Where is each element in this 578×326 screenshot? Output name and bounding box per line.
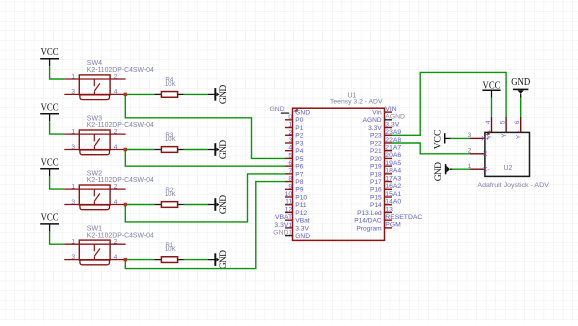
U1 left pin P2 (285, 133, 304, 140)
svg-text:RESETDAC: RESETDAC (385, 214, 422, 221)
U2 pin 1 (X-) (468, 163, 490, 173)
U2 Adafruit Joystick - ADV (477, 132, 549, 189)
svg-text:1: 1 (71, 74, 75, 81)
U1 left pin VBat (285, 218, 310, 225)
U1 right pin P13.Led (357, 210, 392, 217)
svg-text:PGM: PGM (385, 222, 401, 229)
svg-text:P18: P18 (370, 171, 382, 178)
svg-text:Y: Y (486, 134, 493, 139)
U1 right pin P14 (370, 202, 392, 209)
wire VCC to U2 pin 4 (491, 98, 493, 117)
U1 left pin P7 (285, 171, 304, 178)
U1 right pin P15 (370, 194, 392, 201)
wire SW4 pin4 to R4 (126, 93, 155, 95)
wire VCC to SW3 pin 1 (50, 121, 65, 134)
U1 right pin P21 (370, 148, 392, 155)
switch SW2 K2-1102DP-C4SW-04 (64, 170, 154, 209)
svg-text:K2-1102DP-C4SW-04: K2-1102DP-C4SW-04 (87, 177, 154, 184)
svg-text:14A0: 14A0 (385, 199, 401, 206)
svg-text:Adafruit Joystick - ADV: Adafruit Joystick - ADV (477, 182, 549, 189)
U1 left pin GND (281, 110, 310, 117)
svg-text:U2: U2 (504, 165, 513, 172)
U1 right pin P14/DAC (354, 218, 392, 225)
U2 pin 3 (X+) (468, 132, 490, 142)
U1 left pin P4 (285, 148, 304, 155)
wire SW3 pin4 to R3 (126, 149, 155, 151)
U1 right pin P22 (370, 140, 392, 147)
svg-text:P3: P3 (295, 140, 303, 147)
svg-text:1: 1 (71, 184, 75, 191)
svg-text:D: D (218, 195, 229, 202)
svg-text:P10: P10 (295, 194, 307, 201)
resistor R1 10K (154, 242, 183, 263)
svg-text:VIN: VIN (385, 106, 396, 113)
wire GND to U2 pin 1 (453, 168, 470, 170)
svg-text:P2: P2 (295, 133, 303, 140)
U1 left pin P1 (285, 125, 304, 132)
svg-text:10K: 10K (165, 81, 177, 88)
wire R4 to GND (184, 93, 208, 95)
wire GND to U2 pin 6 (520, 98, 522, 117)
svg-text:P12: P12 (295, 210, 307, 217)
svg-text:Program: Program (356, 225, 382, 232)
svg-text:P21: P21 (370, 148, 382, 155)
svg-text:3.3V: 3.3V (368, 125, 382, 132)
op-amp U1 Teensy 3.2 - ADV (293, 93, 385, 241)
wire SW1 pin4 to R1 (126, 259, 155, 261)
wire VCC to SW4 pin 1 (50, 66, 65, 79)
VCC supply for SW2 (40, 157, 59, 176)
svg-text:13: 13 (385, 206, 393, 213)
svg-text:2: 2 (114, 129, 118, 136)
VCC supply left of U2 pin 3 (433, 129, 451, 149)
svg-text:4: 4 (114, 89, 118, 96)
U1 left pin P5 (285, 156, 304, 163)
svg-text:7: 7 (288, 168, 292, 175)
svg-text:VBat: VBat (295, 218, 309, 225)
svg-text:P20: P20 (370, 156, 382, 163)
svg-text:2: 2 (114, 184, 118, 191)
svg-text:8: 8 (288, 176, 292, 183)
svg-text:Teensy 3.2 - ADV: Teensy 3.2 - ADV (330, 99, 383, 106)
U1 right pin P23 (370, 133, 392, 140)
svg-text:X: X (483, 151, 488, 158)
svg-text:Y: Y (516, 134, 523, 139)
U1 right pin P16 (370, 187, 392, 194)
svg-text:GND: GND (295, 233, 310, 240)
svg-text:17A3: 17A3 (385, 175, 401, 182)
svg-text:P17: P17 (370, 179, 382, 186)
resistor R2 10K (154, 187, 183, 208)
svg-text:C: C (433, 129, 444, 136)
switch SW4 K2-1102DP-C4SW-04 (64, 60, 154, 99)
U2 pin 4 (Y+) (485, 117, 493, 139)
junction at SW4 pin 4 (124, 93, 128, 97)
U2 pin 5 (Y) (500, 117, 508, 138)
ground symbol row SW3 (208, 140, 229, 159)
svg-text:4: 4 (485, 120, 492, 124)
wire net 23A9: U1 P23 to U2 pin 5 (392, 72, 506, 135)
wire net 22A8: U1 P22 to U2 pin 2 (392, 143, 470, 154)
svg-text:15A1: 15A1 (385, 191, 401, 198)
U2 pin 2 (X) (468, 148, 488, 158)
U1 left pin GND (285, 233, 310, 240)
svg-text:2: 2 (468, 148, 472, 155)
svg-text:P19: P19 (370, 164, 382, 171)
junction at SW1 pin 4 (124, 258, 128, 262)
U1 left pin 3.3V (285, 225, 309, 232)
U1 right pin 3.3V (368, 125, 392, 132)
svg-text:VCC: VCC (41, 47, 59, 58)
svg-text:GND: GND (511, 77, 530, 88)
svg-text:2: 2 (114, 74, 118, 81)
svg-text:3: 3 (468, 132, 472, 139)
svg-text:1: 1 (71, 239, 75, 246)
U1 right pin P20 (370, 156, 392, 163)
svg-text:P11: P11 (295, 202, 307, 209)
svg-text:10K: 10K (165, 136, 177, 143)
VCC supply for SW4 (40, 47, 59, 66)
wire VCC to U2 pin 3 (451, 137, 471, 139)
svg-text:2: 2 (114, 239, 118, 246)
svg-text:3.3V: 3.3V (385, 121, 399, 128)
svg-text:GND: GND (269, 106, 284, 113)
ground symbol row SW4 (208, 85, 229, 104)
wire R2 to GND (184, 204, 208, 206)
svg-text:10: 10 (285, 191, 293, 198)
svg-text:0: 0 (288, 114, 292, 121)
VCC supply above U2 pin 4 (482, 81, 500, 98)
U1 left pin P8 (285, 179, 304, 186)
wire net SW4 to U1 P5 (125, 96, 285, 158)
svg-text:3.3V: 3.3V (295, 225, 309, 232)
U1 right pin AGND (363, 117, 392, 124)
svg-text:12: 12 (285, 206, 293, 213)
svg-text:3: 3 (71, 254, 75, 261)
wire net SW3 to U1 P6 (125, 151, 285, 166)
svg-text:GND1: GND1 (273, 230, 292, 237)
svg-text:P1: P1 (295, 125, 303, 132)
svg-text:4: 4 (114, 254, 118, 261)
GND supply above U2 pin 6 (511, 77, 530, 98)
wire R1 to GND (184, 259, 208, 261)
svg-text:D: D (218, 250, 229, 257)
wire SW2 pin4 to R2 (126, 204, 155, 206)
svg-text:1: 1 (288, 122, 292, 129)
svg-text:AGND: AGND (363, 117, 382, 124)
svg-text:D: D (218, 85, 229, 92)
svg-text:1: 1 (468, 163, 472, 170)
svg-text:P6: P6 (295, 164, 303, 171)
junction at SW3 pin 4 (124, 148, 128, 152)
U1 right pin P17 (370, 179, 392, 186)
svg-text:20A6: 20A6 (385, 152, 401, 159)
svg-text:P5: P5 (295, 156, 303, 163)
svg-text:P9: P9 (295, 187, 303, 194)
svg-text:D: D (218, 140, 229, 147)
wire net SW1 to U1 P8 (125, 182, 285, 269)
VCC supply for SW1 (40, 212, 59, 231)
svg-text:P8: P8 (295, 179, 303, 186)
svg-text:5: 5 (500, 120, 507, 124)
svg-text:AGND: AGND (385, 114, 405, 121)
svg-text:K2-1102DP-C4SW-04: K2-1102DP-C4SW-04 (87, 67, 154, 74)
U1 left pin P0 (285, 117, 304, 124)
svg-text:P15: P15 (370, 194, 382, 201)
ground symbol row SW1 (208, 250, 229, 269)
svg-text:3: 3 (71, 89, 75, 96)
svg-text:9: 9 (288, 183, 292, 190)
svg-text:10K: 10K (165, 191, 177, 198)
wire net SW2 to U1 P7 (125, 174, 285, 222)
svg-text:VCC: VCC (41, 157, 59, 168)
wire VCC to SW2 pin 1 (50, 176, 65, 189)
U1 right pin P19 (370, 164, 392, 171)
svg-text:P13.Led: P13.Led (357, 210, 382, 217)
wire VCC to SW1 pin 1 (50, 231, 65, 244)
svg-text:P14: P14 (370, 202, 382, 209)
svg-text:VCC: VCC (41, 212, 59, 223)
ground symbol row SW2 (208, 195, 229, 214)
svg-text:D: D (433, 162, 444, 169)
svg-text:6: 6 (514, 120, 521, 124)
svg-text:2: 2 (288, 129, 292, 136)
U1 left pin P3 (285, 140, 304, 147)
svg-text:C: C (433, 136, 444, 143)
svg-text:VBAT: VBAT (275, 214, 292, 221)
switch SW1 K2-1102DP-C4SW-04 (64, 225, 154, 264)
svg-text:P23: P23 (370, 133, 382, 140)
U1 left pin P9 (285, 187, 304, 194)
U1 right pin Program (356, 225, 392, 232)
svg-text:Vin: Vin (372, 110, 382, 117)
svg-text:1: 1 (71, 129, 75, 136)
U1 left pin P12 (285, 210, 307, 217)
svg-text:16A2: 16A2 (385, 183, 401, 190)
svg-text:19A5: 19A5 (385, 160, 401, 167)
svg-text:+: + (486, 129, 493, 133)
svg-text:3: 3 (71, 144, 75, 151)
svg-text:3: 3 (71, 199, 75, 206)
U1 right pin Vin (372, 110, 392, 117)
svg-text:21A7: 21A7 (385, 145, 401, 152)
svg-text:11: 11 (285, 199, 292, 206)
svg-text:18A4: 18A4 (385, 168, 401, 175)
resistor R3 10K (154, 132, 183, 153)
resistor R4 10K (154, 77, 183, 98)
svg-text:10K: 10K (165, 246, 177, 253)
svg-text:-: - (516, 130, 523, 132)
svg-text:X-: X- (483, 166, 490, 173)
svg-text:K2-1102DP-C4SW-04: K2-1102DP-C4SW-04 (87, 232, 154, 239)
svg-text:P4: P4 (295, 148, 303, 155)
svg-text:4: 4 (114, 144, 118, 151)
VCC supply for SW3 (40, 102, 59, 121)
svg-text:K2-1102DP-C4SW-04: K2-1102DP-C4SW-04 (87, 122, 154, 129)
svg-text:GND: GND (295, 110, 310, 117)
svg-text:P22: P22 (370, 140, 382, 147)
svg-text:4: 4 (288, 145, 292, 152)
svg-text:6: 6 (288, 160, 292, 167)
GND supply left of U2 pin 1 (433, 162, 453, 181)
U1 right pin P18 (370, 171, 392, 178)
svg-text:P14/DAC: P14/DAC (354, 218, 382, 225)
svg-text:P7: P7 (295, 171, 303, 178)
U1 left pin P11 (285, 202, 307, 209)
U1 left pin P6 (285, 164, 304, 171)
svg-text:P0: P0 (295, 117, 303, 124)
svg-text:VCC: VCC (41, 102, 59, 113)
svg-text:3: 3 (288, 137, 292, 144)
svg-text:P16: P16 (370, 187, 382, 194)
svg-text:3.3V1: 3.3V1 (274, 222, 292, 229)
svg-text:4: 4 (114, 199, 118, 206)
switch SW3 K2-1102DP-C4SW-04 (64, 115, 154, 154)
wire R3 to GND (184, 149, 208, 151)
U1 left pin P10 (285, 194, 307, 201)
svg-text:Y: Y (501, 133, 508, 138)
junction at SW2 pin 4 (124, 203, 128, 207)
svg-text:5: 5 (288, 152, 292, 159)
U2 pin 6 (Y-) (514, 117, 522, 139)
